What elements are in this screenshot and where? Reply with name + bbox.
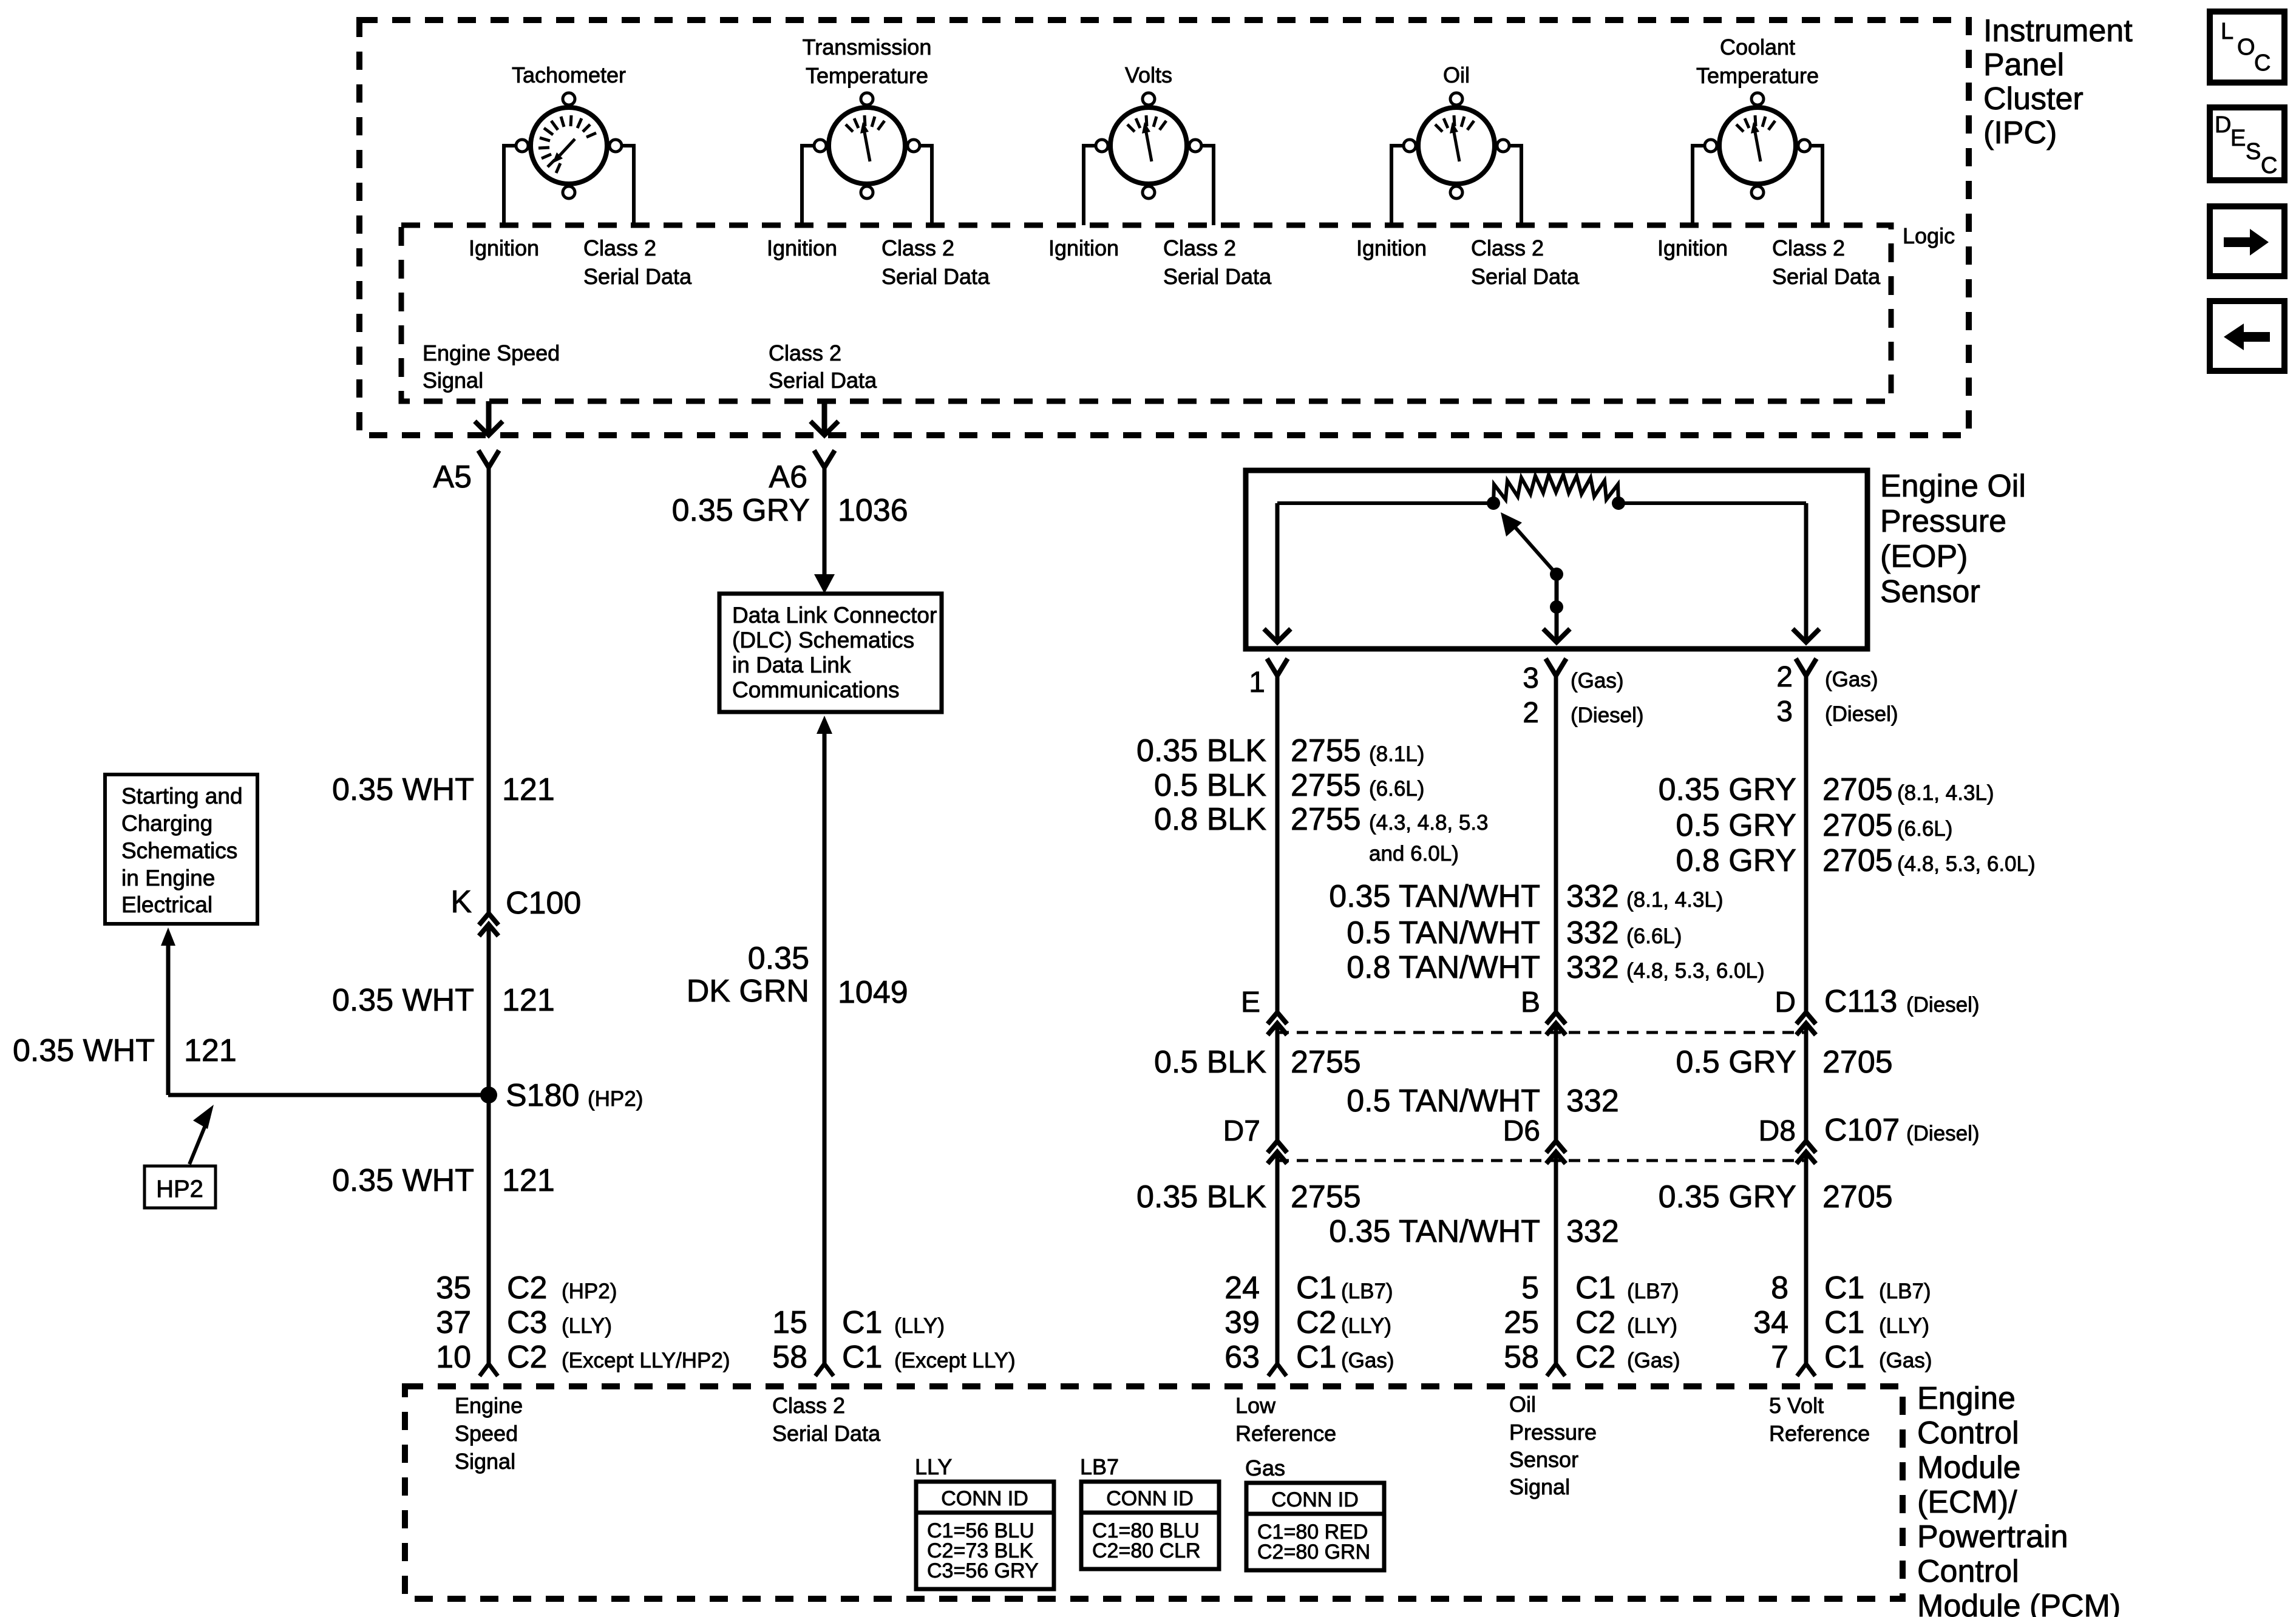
svg-text:D7: D7 (1223, 1115, 1260, 1147)
label 0.35 WHT 121 (branch) (13, 1033, 237, 1068)
svg-text:0.8 GRY: 0.8 GRY (1676, 843, 1796, 878)
label Instrument Panel Cluster (IPC) (1983, 13, 2133, 151)
svg-text:0.35 TAN/WHT: 0.35 TAN/WHT (1329, 879, 1540, 914)
svg-text:0.35 GRY: 0.35 GRY (672, 493, 810, 528)
labels 0.35/0.5/0.8 TAN/WHT 332 (1329, 879, 1764, 985)
svg-text:C1: C1 (1824, 1270, 1864, 1306)
svg-text:332: 332 (1566, 1214, 1619, 1249)
splice S180 (480, 1078, 643, 1113)
svg-text:332: 332 (1566, 879, 1619, 914)
svg-text:3: 3 (1776, 696, 1793, 728)
svg-text:O: O (2237, 35, 2255, 60)
svg-text:D8: D8 (1759, 1115, 1796, 1147)
wire low reference mid (1275, 1023, 1280, 1141)
svg-text:Serial Data: Serial Data (1772, 264, 1881, 289)
svg-text:(IPC): (IPC) (1983, 115, 2057, 151)
svg-text:CONN ID: CONN ID (1106, 1487, 1194, 1510)
svg-text:2755: 2755 (1291, 802, 1361, 837)
label Engine Speed Signal (IPC) (423, 341, 560, 393)
svg-text:CONN ID: CONN ID (1271, 1488, 1359, 1511)
svg-text:2: 2 (1523, 697, 1539, 729)
svg-text:2705: 2705 (1822, 843, 1893, 878)
svg-text:7: 7 (1771, 1340, 1788, 1375)
svg-text:(6.6L): (6.6L) (1897, 817, 1952, 841)
wire 5 volt reference lower (1804, 1152, 1809, 1364)
box HP2 (144, 1166, 216, 1208)
svg-text:C107: C107 (1824, 1113, 1900, 1148)
EOP wiper internal wire (1543, 574, 1570, 642)
svg-text:15: 15 (772, 1305, 807, 1340)
svg-text:S: S (2246, 139, 2261, 164)
svg-text:35: 35 (436, 1270, 471, 1306)
label 0.35 GRY 1036 (672, 493, 908, 528)
svg-text:C2: C2 (1296, 1305, 1336, 1340)
svg-text:(LLY): (LLY) (1341, 1314, 1391, 1338)
svg-text:C2: C2 (1575, 1305, 1615, 1340)
label Oil Pressure Sensor Signal (1509, 1392, 1597, 1499)
wire A6 exit arrow (810, 401, 838, 435)
svg-text:Engine Oil: Engine Oil (1880, 469, 2026, 504)
svg-text:0.35 TAN/WHT: 0.35 TAN/WHT (1329, 1214, 1540, 1249)
svg-text:Transmission: Transmission (803, 35, 932, 59)
svg-text:LLY: LLY (915, 1454, 952, 1479)
svg-text:Engine Speed: Engine Speed (423, 341, 560, 365)
button arrow right (2210, 206, 2284, 276)
svg-text:2755: 2755 (1291, 768, 1361, 803)
box Starting and Charging Schematics in Engine Electrical (105, 775, 257, 924)
svg-text:C1: C1 (1575, 1270, 1615, 1306)
svg-text:24: 24 (1224, 1270, 1260, 1306)
svg-text:Class 2: Class 2 (1163, 236, 1236, 260)
label 0.35 WHT 121 (1) (332, 772, 555, 807)
svg-text:S180: S180 (506, 1078, 579, 1113)
svg-text:Signal: Signal (423, 368, 483, 393)
connector C100 (450, 884, 581, 936)
svg-text:E: E (1241, 986, 1260, 1019)
resistor element (EOP) (1277, 475, 1806, 510)
svg-text:Schematics: Schematics (121, 838, 237, 863)
label Engine Control Module (ECM)/PCM (1917, 1381, 2121, 1617)
pin rows W5 (1753, 1270, 1932, 1375)
wire class 2 serial data to DLC (814, 467, 835, 594)
wire splice branch horizontal (168, 1093, 489, 1097)
svg-text:(6.6L): (6.6L) (1626, 924, 1682, 948)
svg-text:C1: C1 (1296, 1270, 1336, 1306)
svg-text:0.35 WHT: 0.35 WHT (13, 1033, 155, 1068)
svg-text:(LLY): (LLY) (562, 1314, 612, 1338)
svg-text:0.5 TAN/WHT: 0.5 TAN/WHT (1347, 915, 1540, 951)
connector pin chevron W3 (1268, 1364, 1286, 1376)
label 0.35 WHT 121 (2) (332, 983, 555, 1018)
svg-text:C2: C2 (507, 1270, 547, 1306)
pin rows W1 (436, 1270, 730, 1375)
svg-text:Class 2: Class 2 (1471, 236, 1544, 260)
label Logic (1903, 223, 1955, 248)
svg-text:2705: 2705 (1822, 1179, 1893, 1215)
gauge Coolant Temperature (1657, 35, 1881, 289)
button LOC (2210, 12, 2284, 83)
wiper arm (EOP) (1501, 512, 1563, 614)
wire low reference lower (1275, 1152, 1280, 1364)
labels 0.35/0.5/0.8 GRY 2705 (1659, 772, 2036, 878)
svg-text:2755: 2755 (1291, 1045, 1361, 1080)
wire engine speed signal upper (487, 467, 491, 913)
svg-text:3: 3 (1523, 662, 1539, 694)
label 0.5 TAN/WHT 332 (1347, 1083, 1619, 1119)
svg-text:Charging: Charging (121, 811, 212, 836)
svg-text:C1: C1 (1824, 1340, 1864, 1375)
svg-text:Sensor: Sensor (1880, 574, 1980, 609)
connector C107 pin D7 (1223, 1115, 1287, 1164)
gauge Oil (1356, 63, 1580, 289)
svg-text:(8.1, 4.3L): (8.1, 4.3L) (1897, 781, 1994, 805)
svg-text:Serial Data: Serial Data (769, 368, 877, 393)
svg-text:0.5 BLK: 0.5 BLK (1154, 1045, 1266, 1080)
label 5 Volt Reference (1769, 1393, 1870, 1446)
svg-text:Sensor: Sensor (1509, 1447, 1578, 1472)
svg-text:Control: Control (1917, 1554, 2019, 1589)
svg-text:CONN ID: CONN ID (941, 1487, 1028, 1510)
svg-text:121: 121 (502, 772, 555, 807)
svg-text:(Diesel): (Diesel) (1906, 1122, 1980, 1145)
gauge Tachometer (469, 63, 692, 289)
svg-text:A5: A5 (433, 459, 472, 495)
svg-text:C: C (2254, 50, 2271, 76)
label 0.35 TAN/WHT 332 (lower) (1329, 1214, 1618, 1249)
svg-text:C1: C1 (1824, 1305, 1864, 1340)
svg-text:1036: 1036 (838, 493, 908, 528)
svg-text:(Diesel): (Diesel) (1825, 702, 1898, 726)
svg-text:E: E (2230, 126, 2246, 151)
svg-text:Ignition: Ignition (1657, 236, 1728, 260)
EOP pin 1 internal wire (1264, 503, 1291, 642)
svg-text:0.5 GRY: 0.5 GRY (1676, 1045, 1796, 1080)
svg-text:C2: C2 (507, 1340, 547, 1375)
svg-text:Temperature: Temperature (806, 63, 928, 88)
svg-text:(8.1, 4.3L): (8.1, 4.3L) (1626, 888, 1724, 912)
svg-text:0.35 GRY: 0.35 GRY (1659, 772, 1796, 807)
svg-text:Tachometer: Tachometer (512, 63, 626, 87)
connector EOP pin 1 (1249, 659, 1288, 699)
svg-text:D: D (1775, 986, 1796, 1019)
svg-text:332: 332 (1566, 1083, 1619, 1119)
arrow HP2 pointer (189, 1105, 214, 1164)
svg-text:Serial Data: Serial Data (583, 264, 692, 289)
svg-text:Control: Control (1917, 1415, 2019, 1451)
connector pin chevron W1 (480, 1364, 498, 1376)
svg-text:Ignition: Ignition (469, 236, 539, 260)
label Low Reference (1235, 1393, 1336, 1446)
svg-text:1: 1 (1249, 666, 1265, 699)
svg-text:(LB7): (LB7) (1627, 1280, 1679, 1303)
connector EOP pin 3/2 (1523, 659, 1643, 729)
pin rows W2 (772, 1305, 1016, 1375)
svg-text:C113: C113 (1824, 984, 1897, 1019)
label 0.5 BLK 2755 (1154, 1045, 1361, 1080)
svg-text:Pressure: Pressure (1509, 1420, 1597, 1445)
svg-text:(Gas): (Gas) (1571, 669, 1624, 693)
svg-text:Class 2: Class 2 (769, 341, 841, 365)
svg-text:2705: 2705 (1822, 808, 1893, 843)
svg-text:Volts: Volts (1125, 63, 1172, 87)
svg-text:C2: C2 (1575, 1340, 1615, 1375)
svg-text:8: 8 (1771, 1270, 1788, 1306)
svg-text:C3: C3 (507, 1305, 547, 1340)
svg-text:Class 2: Class 2 (772, 1393, 845, 1418)
label Engine Speed Signal (ECM) (455, 1393, 523, 1474)
svg-text:0.5 TAN/WHT: 0.5 TAN/WHT (1347, 1083, 1540, 1119)
svg-text:(4.8, 5.3, 6.0L): (4.8, 5.3, 6.0L) (1897, 852, 2036, 876)
svg-text:Signal: Signal (1509, 1474, 1570, 1499)
wire branch vertical with arrow (161, 927, 175, 1095)
svg-text:332: 332 (1566, 915, 1619, 951)
svg-text:63: 63 (1224, 1340, 1260, 1375)
svg-text:Serial Data: Serial Data (772, 1421, 881, 1446)
svg-text:2705: 2705 (1822, 772, 1893, 807)
IPC logic dashed box (401, 225, 1891, 401)
svg-text:Serial Data: Serial Data (1471, 264, 1580, 289)
svg-text:2705: 2705 (1822, 1045, 1893, 1080)
connector C113 pin B (1521, 986, 1566, 1035)
svg-text:(DLC) Schematics: (DLC) Schematics (732, 628, 914, 653)
svg-text:(ECM)/: (ECM)/ (1917, 1485, 2017, 1520)
svg-text:(Diesel): (Diesel) (1906, 993, 1980, 1017)
svg-text:Class 2: Class 2 (881, 236, 954, 260)
svg-text:in Data Link: in Data Link (732, 653, 851, 677)
svg-text:A6: A6 (769, 459, 807, 495)
svg-text:121: 121 (184, 1033, 237, 1068)
button DESC (2210, 107, 2284, 180)
wire engine speed signal middle (487, 924, 491, 1095)
svg-text:0.5 GRY: 0.5 GRY (1676, 808, 1796, 843)
label 0.5 GRY 2705 (1676, 1045, 1893, 1080)
svg-text:D: D (2215, 112, 2231, 138)
svg-text:0.35 GRY: 0.35 GRY (1659, 1179, 1796, 1215)
svg-text:25: 25 (1504, 1305, 1539, 1340)
svg-text:121: 121 (502, 1163, 555, 1198)
svg-text:Reference: Reference (1235, 1421, 1336, 1446)
svg-text:B: B (1521, 986, 1540, 1019)
svg-text:Reference: Reference (1769, 1421, 1870, 1446)
svg-text:Ignition: Ignition (1356, 236, 1427, 260)
gauge Volts (1048, 63, 1272, 289)
svg-text:(6.6L): (6.6L) (1369, 777, 1424, 801)
connector EOP pin 2/3 (1776, 659, 1898, 728)
svg-text:C1: C1 (842, 1340, 882, 1375)
svg-text:C1: C1 (842, 1305, 882, 1340)
svg-text:0.35 WHT: 0.35 WHT (332, 1163, 474, 1198)
wire engine speed signal lower (487, 1095, 491, 1364)
svg-text:C1: C1 (1296, 1340, 1336, 1375)
svg-text:HP2: HP2 (156, 1176, 203, 1202)
svg-text:Logic: Logic (1903, 223, 1955, 248)
label 0.35 GRY 2705 (lower) (1659, 1179, 1893, 1215)
svg-text:C2=80 GRN: C2=80 GRN (1257, 1541, 1370, 1564)
svg-text:Speed: Speed (455, 1421, 518, 1446)
svg-text:0.5 BLK: 0.5 BLK (1154, 768, 1266, 803)
connector C113 dashed line (1277, 1031, 1806, 1034)
svg-text:2755: 2755 (1291, 733, 1361, 768)
svg-text:(4.8, 5.3, 6.0L): (4.8, 5.3, 6.0L) (1626, 959, 1765, 983)
EOP pin 2 internal wire (1793, 503, 1819, 642)
svg-text:121: 121 (502, 983, 555, 1018)
svg-text:DK GRN: DK GRN (687, 974, 809, 1009)
instrument panel cluster IPC dashed box (359, 20, 1969, 435)
wire 5 volt reference upper (1804, 676, 1809, 1012)
svg-text:(Except LLY/HP2): (Except LLY/HP2) (562, 1349, 730, 1372)
connector pin chevron W2 (815, 1364, 834, 1376)
svg-text:(LB7): (LB7) (1341, 1280, 1393, 1303)
wire oil pressure signal mid (1554, 1023, 1558, 1141)
svg-text:(LB7): (LB7) (1879, 1280, 1931, 1303)
wire class 2 serial data from ECM (817, 716, 832, 1364)
svg-text:1049: 1049 (838, 975, 908, 1010)
wire oil pressure signal upper (1554, 676, 1558, 1012)
svg-text:K: K (450, 884, 472, 920)
svg-text:D6: D6 (1503, 1115, 1540, 1147)
svg-text:0.35 BLK: 0.35 BLK (1136, 1179, 1266, 1215)
svg-text:(Gas): (Gas) (1825, 668, 1878, 691)
svg-text:in Engine: in Engine (121, 866, 215, 890)
box Data Link Connector DLC (719, 594, 942, 712)
wire A5 exit arrow (475, 401, 503, 435)
svg-text:(LLY): (LLY) (894, 1314, 945, 1338)
button arrow left (2210, 301, 2284, 371)
svg-text:and 6.0L): and 6.0L) (1369, 842, 1459, 866)
svg-text:Module (PCM): Module (PCM) (1917, 1588, 2121, 1617)
connector C107 dashed line (1277, 1159, 1806, 1162)
svg-text:Ignition: Ignition (767, 236, 837, 260)
svg-text:(LLY): (LLY) (1879, 1314, 1929, 1338)
svg-text:Cluster: Cluster (1983, 81, 2084, 117)
svg-text:(Diesel): (Diesel) (1571, 703, 1644, 727)
svg-text:Data Link Connector: Data Link Connector (732, 603, 937, 628)
connector C107 pin D8 (1759, 1113, 1980, 1164)
table CONN ID LB7 (1080, 1454, 1219, 1569)
svg-text:(Gas): (Gas) (1341, 1349, 1394, 1372)
svg-text:Communications: Communications (732, 677, 900, 702)
svg-text:C2=80 CLR: C2=80 CLR (1092, 1539, 1201, 1562)
label 0.35 BLK 2755 (lower) (1136, 1179, 1361, 1215)
svg-text:(Gas): (Gas) (1627, 1349, 1680, 1372)
svg-text:Starting and: Starting and (121, 784, 243, 808)
engine control module ECM dashed box (405, 1386, 1903, 1599)
svg-text:0.35 BLK: 0.35 BLK (1136, 733, 1266, 768)
svg-text:Coolant: Coolant (1720, 35, 1795, 59)
svg-text:Signal: Signal (455, 1449, 515, 1474)
label Class 2 Serial Data (ECM) (772, 1393, 881, 1446)
svg-text:Engine: Engine (455, 1393, 523, 1418)
svg-text:0.35 WHT: 0.35 WHT (332, 772, 474, 807)
svg-text:Powertrain: Powertrain (1917, 1519, 2068, 1554)
svg-text:37: 37 (436, 1305, 471, 1340)
svg-text:Engine: Engine (1917, 1381, 2016, 1416)
box Engine Oil Pressure EOP Sensor (1246, 470, 1867, 649)
connector C107 pin D6 (1503, 1115, 1566, 1164)
svg-text:Low: Low (1235, 1393, 1276, 1418)
svg-text:Panel: Panel (1983, 47, 2064, 83)
svg-text:Serial Data: Serial Data (881, 264, 990, 289)
connector pin chevron W4 (1547, 1364, 1565, 1376)
svg-text:5 Volt: 5 Volt (1769, 1393, 1824, 1418)
wire oil pressure signal lower (1554, 1152, 1558, 1364)
connector pin chevron W5 (1797, 1364, 1815, 1376)
svg-text:58: 58 (772, 1340, 807, 1375)
svg-text:34: 34 (1753, 1305, 1788, 1340)
svg-text:C3=56 GRY: C3=56 GRY (927, 1559, 1039, 1582)
svg-text:C100: C100 (506, 886, 581, 921)
svg-text:Electrical: Electrical (121, 892, 212, 917)
svg-text:Oil: Oil (1509, 1392, 1536, 1417)
svg-text:Serial Data: Serial Data (1163, 264, 1272, 289)
svg-text:Instrument: Instrument (1983, 13, 2133, 49)
svg-text:LB7: LB7 (1080, 1454, 1119, 1479)
svg-text:(Except LLY): (Except LLY) (894, 1349, 1016, 1372)
svg-text:(Gas): (Gas) (1879, 1349, 1932, 1372)
svg-text:(4.3, 4.8, 5.3: (4.3, 4.8, 5.3 (1369, 811, 1489, 835)
svg-text:L: L (2221, 19, 2233, 44)
svg-text:39: 39 (1224, 1305, 1260, 1340)
connector C113 pin D (1775, 984, 1979, 1035)
table CONN ID Gas (1245, 1456, 1384, 1570)
labels 0.35/0.5/0.8 BLK 2755 (1136, 733, 1488, 866)
pin rows W4 (1504, 1270, 1680, 1375)
svg-text:10: 10 (436, 1340, 471, 1375)
svg-text:0.35: 0.35 (748, 941, 809, 976)
svg-text:58: 58 (1504, 1340, 1539, 1375)
wire low reference upper (1275, 676, 1280, 1012)
svg-text:0.8 BLK: 0.8 BLK (1154, 802, 1266, 837)
svg-text:0.8 TAN/WHT: 0.8 TAN/WHT (1347, 950, 1540, 985)
pin rows W3 (1224, 1270, 1394, 1375)
svg-text:(LLY): (LLY) (1627, 1314, 1677, 1338)
svg-text:Class 2: Class 2 (1772, 236, 1845, 260)
table CONN ID LLY (915, 1454, 1054, 1589)
gauge Transmission Temperature (767, 35, 990, 289)
svg-text:(EOP): (EOP) (1880, 539, 1968, 574)
svg-text:(HP2): (HP2) (588, 1087, 643, 1111)
svg-text:(HP2): (HP2) (562, 1280, 617, 1303)
label Engine Oil Pressure (EOP) Sensor (1880, 469, 2026, 609)
svg-text:Gas: Gas (1245, 1456, 1285, 1480)
svg-text:Oil: Oil (1443, 63, 1470, 87)
connector A6 (769, 450, 835, 495)
svg-text:332: 332 (1566, 950, 1619, 985)
label 0.35 WHT 121 (3) (332, 1163, 555, 1198)
label 0.35 DK GRN 1049 (687, 941, 908, 1010)
svg-text:5: 5 (1521, 1270, 1539, 1306)
label Class 2 Serial Data (IPC) (769, 341, 877, 393)
svg-text:2: 2 (1776, 661, 1793, 693)
svg-text:Ignition: Ignition (1048, 236, 1119, 260)
svg-text:Pressure: Pressure (1880, 504, 2006, 539)
svg-text:0.35 WHT: 0.35 WHT (332, 983, 474, 1018)
svg-text:(8.1L): (8.1L) (1369, 742, 1424, 766)
svg-text:Temperature: Temperature (1696, 63, 1819, 88)
svg-text:C: C (2261, 153, 2277, 178)
wire 5 volt reference mid (1804, 1023, 1809, 1141)
connector A5 (433, 450, 499, 495)
svg-text:2755: 2755 (1291, 1179, 1361, 1215)
connector C113 pin E (1241, 986, 1287, 1035)
svg-text:Module: Module (1917, 1450, 2021, 1485)
svg-text:Class 2: Class 2 (583, 236, 656, 260)
